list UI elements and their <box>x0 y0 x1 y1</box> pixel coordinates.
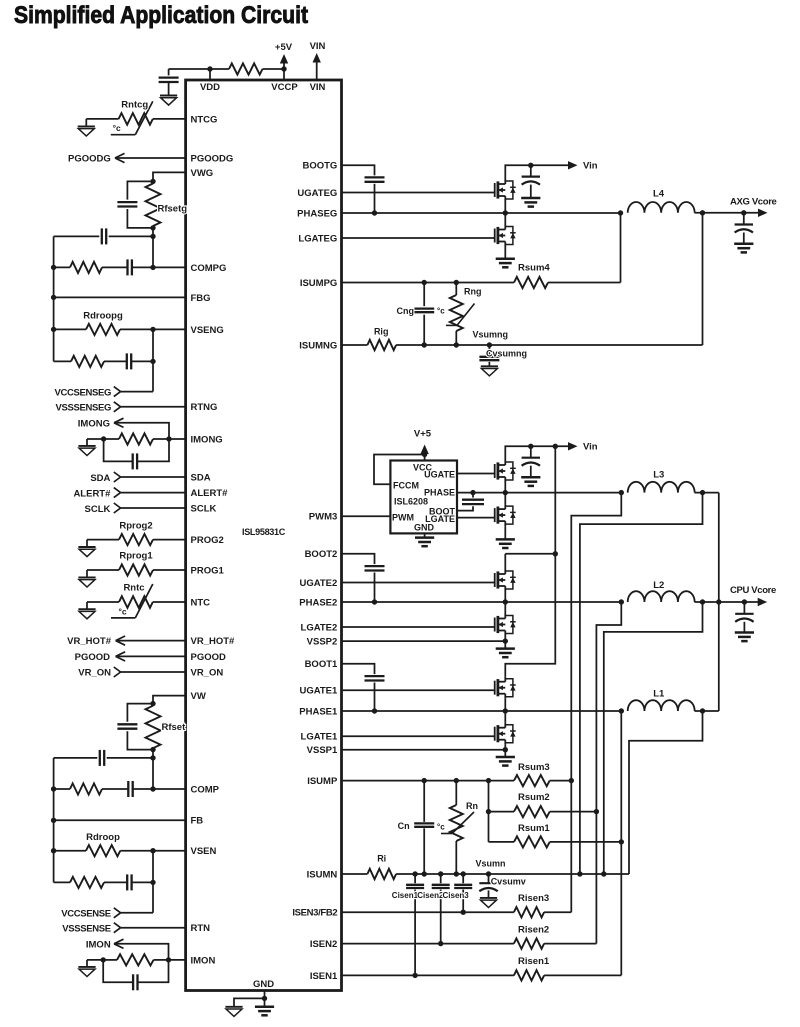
svg-text:NTCG: NTCG <box>191 114 218 125</box>
svg-text:Rfset: Rfset <box>162 722 187 733</box>
svg-text:PGOODG: PGOODG <box>191 153 234 164</box>
svg-text:ALERT#: ALERT# <box>73 489 111 500</box>
svg-text:UGATEG: UGATEG <box>297 188 337 199</box>
svg-text:BOOT2: BOOT2 <box>305 549 338 560</box>
svg-text:Cisen2: Cisen2 <box>417 891 444 900</box>
svg-text:Cvsumng: Cvsumng <box>486 349 527 359</box>
svg-text:UGATE2: UGATE2 <box>299 578 337 589</box>
svg-text:°c: °c <box>437 823 445 832</box>
svg-text:BOOT1: BOOT1 <box>305 659 338 670</box>
svg-text:COMP: COMP <box>191 784 220 795</box>
svg-text:AXG Vcore: AXG Vcore <box>730 196 777 207</box>
svg-text:UGATE: UGATE <box>424 470 455 480</box>
svg-text:Rig: Rig <box>374 327 389 337</box>
svg-text:PGOOD: PGOOD <box>191 652 227 663</box>
svg-text:VCCP: VCCP <box>271 82 298 93</box>
svg-text:UGATE1: UGATE1 <box>299 686 338 697</box>
svg-text:Cng: Cng <box>397 306 415 316</box>
svg-text:Rntcg: Rntcg <box>121 100 148 111</box>
svg-text:IMON: IMON <box>86 940 111 951</box>
svg-text:ISEN1: ISEN1 <box>310 971 338 982</box>
svg-text:ISUMP: ISUMP <box>307 776 338 787</box>
svg-text:IMONG: IMONG <box>78 418 110 429</box>
svg-text:ALERT#: ALERT# <box>191 488 229 499</box>
svg-text:PHASE2: PHASE2 <box>299 597 337 608</box>
svg-text:LGATE2: LGATE2 <box>301 622 338 633</box>
svg-text:VSSSENSEG: VSSSENSEG <box>56 403 111 414</box>
svg-text:Risen3: Risen3 <box>518 893 549 904</box>
svg-text:RTNG: RTNG <box>191 402 218 413</box>
svg-text:BOOTG: BOOTG <box>302 161 337 172</box>
svg-text:Rntc: Rntc <box>123 583 144 594</box>
svg-text:ISEN3/FB2: ISEN3/FB2 <box>292 908 337 919</box>
svg-text:VR_ON: VR_ON <box>78 668 111 679</box>
svg-text:ISL6208: ISL6208 <box>394 497 428 507</box>
svg-text:Vin: Vin <box>583 161 598 172</box>
svg-text:GND: GND <box>253 979 274 990</box>
svg-text:LGATEG: LGATEG <box>298 233 337 244</box>
svg-text:SDA: SDA <box>90 473 110 484</box>
svg-text:ISUMN: ISUMN <box>307 869 338 880</box>
svg-text:IMONG: IMONG <box>191 434 223 445</box>
svg-text:°c: °c <box>113 123 121 133</box>
svg-text:Risen2: Risen2 <box>518 925 549 936</box>
svg-text:Vsumn: Vsumn <box>476 859 506 869</box>
svg-text:VW: VW <box>191 691 206 702</box>
svg-text:FBG: FBG <box>191 293 211 304</box>
svg-text:ISUMNG: ISUMNG <box>299 340 337 351</box>
svg-text:PHASE1: PHASE1 <box>299 706 338 717</box>
svg-text:Rsum4: Rsum4 <box>518 263 550 274</box>
svg-text:IMON: IMON <box>191 955 216 966</box>
svg-text:Rfsetg: Rfsetg <box>158 204 188 215</box>
svg-text:COMPG: COMPG <box>191 263 227 274</box>
svg-text:VR_HOT#: VR_HOT# <box>191 636 236 647</box>
svg-text:°c: °c <box>119 607 127 617</box>
svg-text:Vin: Vin <box>583 442 598 453</box>
svg-text:FB: FB <box>191 816 204 827</box>
svg-text:VSSP1: VSSP1 <box>307 745 338 756</box>
svg-text:VCCSENSEG: VCCSENSEG <box>54 387 111 398</box>
svg-text:PGOOD: PGOOD <box>75 652 111 663</box>
svg-text:Cn: Cn <box>398 821 410 831</box>
svg-text:Ri: Ri <box>377 854 386 864</box>
svg-text:VIN: VIN <box>310 82 326 93</box>
svg-text:Risen1: Risen1 <box>518 956 550 967</box>
svg-text:SCLK: SCLK <box>85 504 111 515</box>
svg-text:VIN: VIN <box>310 41 326 52</box>
svg-text:CPU Vcore: CPU Vcore <box>730 585 776 596</box>
svg-text:Rng: Rng <box>464 287 482 297</box>
svg-text:PWM3: PWM3 <box>309 512 338 523</box>
svg-text:ISEN2: ISEN2 <box>310 939 337 950</box>
svg-text:VSEN: VSEN <box>191 846 217 857</box>
svg-text:VWG: VWG <box>191 168 214 179</box>
svg-text:L2: L2 <box>653 580 664 591</box>
svg-text:SCLK: SCLK <box>191 503 217 514</box>
svg-text:VCCSENSE: VCCSENSE <box>61 909 110 920</box>
svg-text:°c: °c <box>437 307 445 316</box>
svg-text:PGOODG: PGOODG <box>68 153 111 164</box>
svg-text:PWM: PWM <box>392 513 414 523</box>
svg-text:+5V: +5V <box>275 42 293 53</box>
svg-text:Rn: Rn <box>466 801 478 811</box>
svg-text:ISUMPG: ISUMPG <box>300 278 337 289</box>
svg-text:Rdroopg: Rdroopg <box>83 311 123 322</box>
svg-text:Cisen3: Cisen3 <box>443 891 470 900</box>
svg-text:Rsum3: Rsum3 <box>518 762 550 773</box>
svg-text:VDD: VDD <box>200 82 220 93</box>
svg-text:SDA: SDA <box>191 472 211 483</box>
svg-text:L3: L3 <box>653 469 664 480</box>
svg-text:VR_ON: VR_ON <box>191 667 224 678</box>
svg-text:Cvsumv: Cvsumv <box>491 877 526 887</box>
svg-text:VSENG: VSENG <box>191 325 224 336</box>
svg-text:NTC: NTC <box>191 597 211 608</box>
svg-text:PROG2: PROG2 <box>191 535 224 546</box>
svg-text:VSSSENSE: VSSSENSE <box>62 923 110 934</box>
svg-text:L1: L1 <box>653 688 665 699</box>
svg-text:Rsum1: Rsum1 <box>518 823 550 834</box>
svg-text:LGATE1: LGATE1 <box>301 732 338 743</box>
svg-text:Vsumng: Vsumng <box>473 330 509 340</box>
svg-text:L4: L4 <box>653 188 665 199</box>
svg-text:PHASE: PHASE <box>424 488 455 498</box>
svg-text:VSSP2: VSSP2 <box>307 637 338 648</box>
svg-text:PROG1: PROG1 <box>191 565 225 576</box>
svg-text:ISL95831C: ISL95831C <box>242 527 285 538</box>
svg-text:Rdroop: Rdroop <box>86 832 120 843</box>
svg-text:Rprog2: Rprog2 <box>119 520 152 531</box>
svg-text:Rprog1: Rprog1 <box>119 550 153 561</box>
svg-text:VR_HOT#: VR_HOT# <box>67 636 112 647</box>
svg-text:GND: GND <box>414 523 435 533</box>
svg-text:Rsum2: Rsum2 <box>518 792 550 803</box>
svg-text:Simplified Application Circuit: Simplified Application Circuit <box>14 2 308 29</box>
svg-text:V+5: V+5 <box>414 429 432 440</box>
svg-text:Cisen1: Cisen1 <box>392 891 419 900</box>
svg-text:PHASEG: PHASEG <box>297 208 337 219</box>
svg-text:FCCM: FCCM <box>393 481 419 491</box>
svg-text:RTN: RTN <box>191 923 211 934</box>
